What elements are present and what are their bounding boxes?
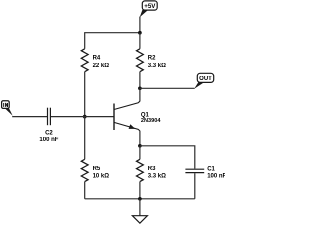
node: junction dot at +5V / R2 / rail — [138, 31, 142, 35]
svg-text:C2: C2 — [45, 131, 53, 137]
ground — [132, 199, 147, 223]
wire: top rail from R4 column to +5V column — [85, 33, 140, 49]
resistor R2 — [137, 49, 167, 72]
wire: base node to transistor base — [85, 116, 114, 118]
svg-text:100 nF: 100 nF — [207, 173, 225, 179]
svg-text:R5: R5 — [93, 166, 101, 172]
emitter diagonal — [114, 122, 140, 130]
wire: R4 bottom lead down to base node — [84, 72, 86, 117]
capacitor C2 — [39, 108, 58, 144]
svg-text:22 kΩ: 22 kΩ — [93, 63, 110, 69]
svg-text:+5V: +5V — [144, 3, 156, 10]
svg-text:R3: R3 — [148, 166, 156, 172]
svg-text:R4: R4 — [93, 56, 101, 62]
emitter arrow — [129, 124, 136, 129]
transistor Q1 2N3904 — [114, 101, 161, 131]
node: collector / OUT junction dot — [138, 86, 142, 90]
svg-text:OUT: OUT — [199, 76, 212, 82]
wire: +5V feed down to top rail — [139, 17, 141, 33]
wire: C2 right plate to base node — [51, 116, 85, 118]
svg-text:3.3 kΩ: 3.3 kΩ — [148, 174, 166, 180]
svg-text:10 kΩ: 10 kΩ — [93, 174, 110, 180]
collector diagonal — [114, 101, 140, 109]
svg-text:R2: R2 — [148, 56, 156, 62]
wire: emitter node to C1 top — [140, 146, 195, 169]
capacitor C1 — [185, 166, 226, 179]
wire: emitter lead down to emitter node — [139, 131, 141, 146]
svg-text:3.3 kΩ: 3.3 kΩ — [148, 63, 166, 69]
power +5V flag — [140, 1, 158, 17]
svg-text:100 nF: 100 nF — [39, 137, 58, 143]
node: ground junction dot — [138, 197, 142, 201]
resistor R3 — [137, 146, 167, 199]
resistor R4 — [81, 49, 109, 72]
svg-text:2N3904: 2N3904 — [141, 118, 161, 124]
wire: C1 bottom lead — [194, 173, 196, 199]
net flag OUT — [194, 73, 214, 88]
wire: collector lead up to OUT node — [139, 88, 141, 101]
node: base junction dot — [83, 115, 87, 119]
wire: R2 bottom lead to collector node — [139, 72, 141, 89]
base bar — [113, 104, 115, 131]
wire: IN to C2 left plate — [12, 116, 47, 118]
net flag IN — [2, 101, 13, 116]
wire: OUT wire — [140, 87, 195, 89]
wire: R4 top lead (rail corner included above) — [139, 33, 141, 49]
node: emitter junction dot — [138, 144, 142, 148]
resistor R5 — [81, 117, 109, 199]
wire: bottom rail — [85, 198, 195, 200]
svg-text:C1: C1 — [207, 166, 215, 172]
